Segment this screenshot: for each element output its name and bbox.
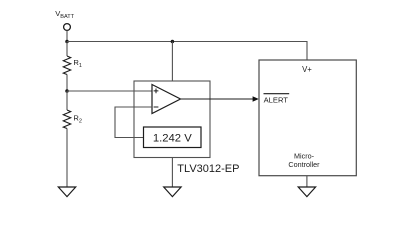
node VBATT terminal bbox=[64, 24, 71, 31]
svg-text:Controller: Controller bbox=[288, 160, 320, 169]
junction comparator supply branch bbox=[171, 40, 175, 44]
op-amp U1 bbox=[152, 85, 181, 114]
wire R1 to divider node bbox=[66, 75, 68, 92]
wire R2 to ground bbox=[66, 129, 68, 188]
svg-text:R2: R2 bbox=[73, 114, 82, 125]
svg-text:ALERT: ALERT bbox=[264, 95, 289, 104]
svg-text:1.242 V: 1.242 V bbox=[153, 133, 192, 145]
wire comparator supply drop bbox=[171, 42, 173, 82]
wire MCU ground bbox=[306, 176, 308, 187]
svg-text:TLV3012-EP: TLV3012-EP bbox=[177, 163, 239, 175]
wire divider node to R2 bbox=[66, 91, 68, 110]
wire VBATT terminal to top rail bbox=[66, 31, 68, 42]
wire feedback from - input to reference bbox=[115, 107, 152, 138]
wire top supply rail bbox=[67, 42, 307, 61]
pin + (non-inverting input) bbox=[154, 89, 159, 94]
ground divider bbox=[58, 187, 75, 197]
wire rail to R1 bbox=[66, 42, 68, 57]
wire comparator output to MCU bbox=[181, 98, 254, 100]
overline for ALERT bbox=[264, 93, 290, 95]
resistor R1 bbox=[63, 56, 70, 75]
reference block 1.242 V bbox=[144, 127, 202, 148]
ground comparator bbox=[164, 187, 181, 197]
comparator box U1 bbox=[134, 81, 210, 158]
ground MCU bbox=[298, 187, 315, 197]
junction VBATT node bbox=[65, 40, 69, 44]
wire divider node to comparator + input bbox=[67, 90, 152, 92]
svg-text:VBATT: VBATT bbox=[55, 9, 75, 20]
pin - (inverting input) bbox=[154, 106, 159, 108]
junction divider node bbox=[65, 89, 69, 93]
svg-text:R1: R1 bbox=[73, 58, 82, 69]
arrowhead at ALERT input bbox=[253, 96, 259, 101]
resistor R2 bbox=[63, 110, 70, 129]
microcontroller box U2 bbox=[259, 60, 356, 176]
svg-text:V+: V+ bbox=[302, 65, 312, 74]
wire comparator ground bbox=[171, 158, 173, 188]
